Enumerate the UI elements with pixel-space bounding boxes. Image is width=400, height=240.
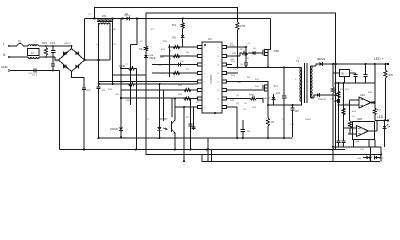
wire <box>322 63 388 65</box>
wire <box>311 97 315 99</box>
wire <box>369 130 378 132</box>
capacitor <box>51 63 55 65</box>
wire <box>248 52 253 54</box>
junction <box>267 66 269 68</box>
svg-text:+: + <box>351 68 353 72</box>
diode <box>144 55 148 58</box>
wire <box>338 143 340 147</box>
IC U1 pin boxes right <box>222 45 227 48</box>
wire <box>59 49 85 72</box>
junction <box>183 106 185 108</box>
wire <box>292 105 294 108</box>
capacitor <box>82 87 86 89</box>
T1 core <box>304 63 306 103</box>
wire <box>336 100 338 102</box>
diode <box>272 97 276 100</box>
wire <box>311 65 317 67</box>
terminal L (line input) <box>8 45 10 47</box>
capacitor <box>337 99 339 103</box>
wire <box>242 120 244 130</box>
wire <box>316 64 320 66</box>
junction at D1 cathode tap <box>136 17 138 19</box>
wire <box>227 64 233 66</box>
junction RV1 top <box>45 45 47 47</box>
junction <box>267 104 269 106</box>
svg-text:VCC: VCC <box>150 29 155 31</box>
diode <box>372 101 374 104</box>
junction <box>245 66 247 68</box>
junction <box>169 50 171 52</box>
capacitor <box>33 68 35 72</box>
junction <box>112 18 114 20</box>
svg-text:10K: 10K <box>160 57 164 59</box>
wire <box>85 18 271 20</box>
wire <box>242 131 244 138</box>
wire <box>336 82 375 84</box>
wire <box>385 64 387 70</box>
svg-text:200A: 200A <box>148 54 154 57</box>
wire <box>267 105 269 118</box>
wire <box>368 140 370 147</box>
resistor <box>184 97 191 100</box>
svg-text:1N4148: 1N4148 <box>318 99 326 101</box>
junction <box>387 119 389 121</box>
junction <box>120 136 122 138</box>
svg-text:CY: CY <box>125 64 129 66</box>
junction <box>98 83 100 85</box>
wire <box>371 102 375 104</box>
wire <box>273 100 275 105</box>
wire <box>227 66 302 68</box>
resistor <box>266 118 269 126</box>
junction <box>236 137 238 139</box>
capacitor <box>97 86 101 88</box>
wire <box>268 101 302 105</box>
wire <box>374 140 376 147</box>
transformer winding <box>300 67 302 101</box>
op-amp U4A <box>359 97 371 108</box>
capacitor <box>189 123 193 125</box>
diode <box>63 65 66 69</box>
wire <box>98 23 100 87</box>
junction rail x335.5 <box>334 63 336 65</box>
IC U1 pin boxes left <box>198 45 203 48</box>
opto arrow strokes <box>163 128 167 130</box>
wire to Q1 gate <box>256 52 263 54</box>
wire <box>384 121 386 127</box>
wire <box>59 71 61 150</box>
wire <box>182 19 184 23</box>
wire <box>121 67 129 69</box>
wire <box>211 150 213 162</box>
wire <box>60 149 346 151</box>
junction <box>112 74 114 76</box>
resistor <box>373 108 376 115</box>
diode <box>253 51 256 55</box>
diode <box>383 126 387 129</box>
fuse F1 arc <box>17 44 23 46</box>
wire choke to bridge top (L rail) <box>39 45 71 47</box>
resistor <box>173 54 180 57</box>
wire <box>202 155 380 162</box>
wire <box>349 128 351 134</box>
wire <box>99 23 110 24</box>
resistor WR2 inline <box>251 97 257 100</box>
wire <box>333 146 381 148</box>
wire <box>182 29 184 36</box>
wire <box>131 44 138 46</box>
wire <box>28 57 39 58</box>
diode <box>181 35 185 38</box>
wire <box>335 64 337 150</box>
svg-text:AT1: AT1 <box>102 14 107 18</box>
svg-text:2N60: 2N60 <box>274 51 280 53</box>
wire <box>348 100 350 121</box>
wire <box>130 45 132 106</box>
svg-text:PC: PC <box>146 119 149 121</box>
junction <box>190 149 192 151</box>
wire <box>332 73 334 87</box>
wire <box>175 106 198 108</box>
wire <box>152 72 198 74</box>
wire <box>374 64 376 103</box>
wire <box>363 157 367 159</box>
svg-text:LED -: LED - <box>377 115 385 119</box>
wire <box>256 98 263 100</box>
capacitor <box>290 107 294 109</box>
wire <box>71 46 73 49</box>
junction <box>174 98 176 100</box>
junction <box>335 82 337 84</box>
junction <box>267 137 269 139</box>
inductor AT1 core <box>97 19 113 21</box>
junction <box>183 160 185 162</box>
capacitor <box>178 62 180 66</box>
svg-text:F1: F1 <box>18 40 22 44</box>
wire <box>384 129 386 147</box>
wire <box>52 66 54 71</box>
svg-text:L: L <box>3 42 5 46</box>
wire R1 down to primary return <box>237 30 239 67</box>
junction <box>169 58 171 60</box>
capacitor <box>353 74 357 76</box>
terminal N (neutral input) <box>8 56 10 58</box>
wire <box>377 157 381 159</box>
svg-text:CY1: CY1 <box>32 73 38 77</box>
wire <box>99 83 198 85</box>
junction <box>335 100 337 102</box>
junction bridge minus to bottom bus <box>83 148 85 150</box>
resistor <box>236 22 239 30</box>
wire <box>95 8 238 23</box>
svg-text:103: 103 <box>295 110 300 113</box>
resistor <box>129 82 135 85</box>
svg-text:RV1: RV1 <box>42 41 48 45</box>
svg-text:U4A: U4A <box>360 94 365 97</box>
wire <box>120 19 122 139</box>
wire <box>152 64 198 66</box>
wire <box>374 115 376 121</box>
wire <box>236 107 238 138</box>
drain link <box>268 49 271 51</box>
wire <box>344 127 357 129</box>
resistor <box>331 87 334 93</box>
junction <box>159 137 161 139</box>
junction <box>98 137 100 139</box>
resistor <box>173 71 180 74</box>
junction <box>242 137 244 139</box>
inductor winding <box>28 45 38 46</box>
junction <box>332 63 334 65</box>
wire <box>171 99 173 118</box>
svg-text:10K: 10K <box>180 61 184 63</box>
wire <box>227 89 263 91</box>
junction RV1 bottom <box>45 56 47 58</box>
junction <box>380 154 382 156</box>
svg-text:18V: 18V <box>172 38 177 40</box>
junction <box>343 82 345 84</box>
wire <box>374 103 376 109</box>
wire <box>350 72 356 74</box>
junction <box>384 120 386 122</box>
capacitor <box>363 74 367 76</box>
wire <box>344 77 346 84</box>
wire <box>380 147 382 161</box>
wire <box>85 59 111 61</box>
junction <box>174 149 176 151</box>
svg-text:P6KE: P6KE <box>150 58 156 60</box>
svg-text:DB107: DB107 <box>64 43 71 45</box>
junction startup tap <box>93 17 95 19</box>
diode <box>76 51 79 55</box>
junction <box>120 67 122 69</box>
svg-text:CX1: CX1 <box>50 41 56 45</box>
wire <box>207 138 209 161</box>
T1 primary inner line <box>301 67 303 101</box>
wire <box>121 97 198 99</box>
junction <box>206 149 208 151</box>
wire x343.5 down <box>343 134 345 141</box>
diode <box>157 127 162 130</box>
wire <box>193 107 195 130</box>
svg-text:FR107: FR107 <box>124 15 131 17</box>
junction <box>370 160 372 162</box>
svg-text:CR6842: CR6842 <box>209 74 213 84</box>
wire <box>146 154 382 156</box>
wire <box>55 57 59 60</box>
junction <box>332 149 334 151</box>
wire <box>245 47 247 63</box>
wire <box>84 19 86 61</box>
wire N to choke <box>10 56 28 58</box>
wire <box>267 91 269 105</box>
box <box>353 122 375 140</box>
wire <box>314 95 317 98</box>
diode <box>375 156 378 160</box>
junction <box>332 146 334 148</box>
junction <box>374 63 376 65</box>
svg-text:LED +: LED + <box>374 57 384 61</box>
wire CX1 top lead <box>52 46 54 51</box>
resistor <box>342 108 345 115</box>
svg-text:SB2100: SB2100 <box>317 59 326 61</box>
wire <box>273 94 275 97</box>
svg-text:U1: U1 <box>208 37 212 41</box>
junction at D1 anode tap <box>121 17 123 19</box>
capacitor <box>282 95 287 97</box>
svg-text:GND1: GND1 <box>305 119 312 121</box>
resistor <box>44 48 47 56</box>
junction <box>135 149 137 151</box>
junction <box>292 104 294 106</box>
wire <box>183 107 185 161</box>
svg-text:WR2: WR2 <box>249 95 255 97</box>
capacitor <box>51 50 56 52</box>
transformer winding <box>311 66 313 98</box>
junction <box>182 18 184 20</box>
wire <box>227 106 238 108</box>
wire <box>292 110 294 137</box>
junction R1 return <box>236 66 238 68</box>
junction AT1 left leg <box>97 59 99 61</box>
wire <box>283 67 285 96</box>
wire <box>146 13 336 155</box>
wire <box>267 126 269 138</box>
wire <box>370 158 372 162</box>
wire <box>190 99 192 150</box>
wire <box>168 46 198 48</box>
wire <box>349 99 359 101</box>
junction <box>112 83 114 85</box>
wire <box>174 133 176 150</box>
junction <box>338 104 340 106</box>
cap C22 on x343.5 <box>342 140 346 142</box>
junction <box>283 137 285 139</box>
wire <box>338 83 340 141</box>
svg-text:R20: R20 <box>389 74 394 77</box>
MOSFET Q2 <box>263 85 268 92</box>
wire <box>365 64 367 75</box>
wire <box>227 55 241 57</box>
wire <box>99 81 198 83</box>
wire <box>160 55 198 57</box>
svg-text:L1: L1 <box>31 51 35 55</box>
wire <box>169 44 171 77</box>
junction <box>135 149 137 151</box>
wire <box>112 19 114 85</box>
wire <box>343 143 345 147</box>
diode <box>76 65 79 69</box>
junction CY2 to gnd line <box>52 70 54 72</box>
junction CX1 top <box>52 45 54 47</box>
wire <box>121 89 198 91</box>
wire <box>182 39 184 47</box>
wire <box>339 104 360 106</box>
wire <box>159 131 161 139</box>
junction <box>283 66 285 68</box>
box <box>202 42 222 113</box>
wire <box>245 65 247 68</box>
resistor <box>184 88 191 91</box>
svg-text:1N4148: 1N4148 <box>262 98 270 100</box>
svg-text:U4B: U4B <box>357 118 362 121</box>
svg-text:5K1: 5K1 <box>172 25 177 27</box>
wire <box>270 19 272 50</box>
wire <box>98 89 100 138</box>
wire <box>376 121 378 132</box>
junction <box>338 82 340 84</box>
junction <box>245 46 247 48</box>
svg-text:470K: 470K <box>240 25 246 28</box>
wire CX1 bottom lead <box>52 52 54 57</box>
junction CX1 bottom <box>52 56 54 58</box>
LED arrows <box>387 124 390 128</box>
box <box>28 49 40 56</box>
wire <box>355 73 357 75</box>
capacitor <box>244 62 248 64</box>
wire <box>365 76 367 83</box>
resistor <box>173 45 180 48</box>
wire <box>136 68 138 149</box>
resistor <box>384 70 387 78</box>
wire <box>99 137 293 139</box>
T1 secondary inner line <box>310 66 312 98</box>
wire <box>83 90 85 150</box>
MOSFET Q1 <box>263 49 268 56</box>
wire <box>385 78 387 121</box>
svg-text:0.33R: 0.33R <box>119 66 125 68</box>
resistor <box>181 23 184 29</box>
wire <box>72 72 85 88</box>
wire <box>283 98 285 138</box>
wire <box>227 98 251 100</box>
diode <box>127 17 130 21</box>
resistor <box>129 67 135 70</box>
wire <box>240 53 242 56</box>
wire <box>267 56 269 68</box>
wire <box>163 90 165 121</box>
svg-text:2n2: 2n2 <box>276 92 281 95</box>
wire <box>343 83 345 134</box>
junction <box>214 112 216 114</box>
wire <box>109 23 111 60</box>
junction <box>120 97 122 99</box>
diode <box>317 93 320 97</box>
wire <box>348 133 357 135</box>
terminal GND <box>8 70 10 72</box>
wire <box>262 99 264 104</box>
wire <box>333 64 340 73</box>
resistor <box>337 91 340 98</box>
junction <box>387 63 389 65</box>
wire <box>227 81 245 83</box>
junction <box>159 83 161 85</box>
junction <box>370 157 372 159</box>
svg-text:GND: GND <box>1 65 9 69</box>
junction <box>385 63 387 65</box>
wire fuse to choke <box>23 45 28 47</box>
wire <box>355 76 357 83</box>
svg-text:78L: 78L <box>341 73 346 76</box>
wire <box>10 70 60 72</box>
wire <box>159 84 161 127</box>
wire <box>375 120 388 122</box>
svg-text:1N4007: 1N4007 <box>110 128 119 131</box>
wire <box>353 140 355 147</box>
diode <box>320 62 323 66</box>
wire <box>174 99 176 121</box>
junction bridge plus <box>83 59 85 61</box>
